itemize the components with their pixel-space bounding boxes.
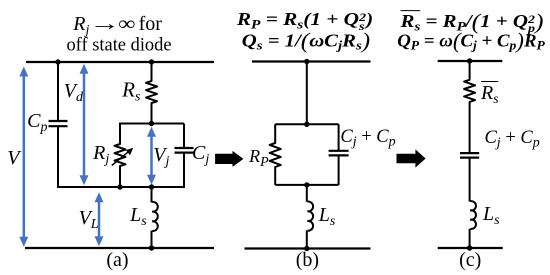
- wire: box top edge (b): [275, 123, 338, 125]
- node: top rail (b): [304, 59, 309, 64]
- node: top rail / C_p (a): [55, 59, 60, 64]
- wire: L_s lower lead (c): [469, 229, 471, 248]
- label L_s (a): [130, 205, 147, 225]
- equation: Q_s = 1/(ω C_j R_s): [242, 30, 370, 52]
- wire: top rail (a): [26, 61, 214, 63]
- wire: bottom rail (c): [438, 247, 503, 249]
- resistor R_P: [270, 124, 281, 185]
- voltage arrow V: [19, 67, 28, 247]
- node: top rail (c): [467, 58, 472, 63]
- wire: cap upper lead (b): [338, 124, 340, 150]
- wire: L_s lower lead (b): [306, 230, 308, 248]
- node: box top (b): [304, 122, 309, 127]
- inductor L_s (b): [308, 202, 314, 231]
- resistor overline R_s (c): [464, 61, 475, 153]
- text: "R_j → ∞ for": [73, 14, 162, 34]
- label C_j + C_p (c): [484, 129, 539, 148]
- wire: cap lower lead (b): [338, 156, 340, 185]
- capacitor C_j + C_p (b): [329, 151, 349, 156]
- inductor L_s (a): [152, 202, 158, 231]
- voltage arrow V_j: [147, 127, 156, 185]
- label L_s (b): [319, 205, 336, 225]
- resistor R_j: [115, 124, 126, 188]
- node: bottom bus / R_j (a): [117, 184, 122, 189]
- capacitor C_p: [49, 121, 68, 126]
- caption (b): [296, 250, 319, 270]
- capacitor C_j + C_p (c): [460, 153, 479, 158]
- resistor R_s: [146, 62, 157, 124]
- label V_L: [79, 208, 99, 228]
- equation: Q_P = ω(C_j + C_p)R_P: [397, 30, 545, 52]
- label C_j + C_p (b): [340, 127, 395, 146]
- capacitor C_j: [175, 148, 194, 153]
- node: bottom rail (b): [304, 246, 309, 251]
- label C_j: [192, 143, 209, 163]
- label V_j: [153, 145, 169, 165]
- wire: C_j upper lead: [183, 124, 185, 148]
- label overline R_s (c): [481, 81, 499, 103]
- voltage arrow V_d: [80, 64, 89, 186]
- label L_s (c): [483, 204, 500, 224]
- caption (a): [106, 250, 128, 270]
- equation: R_P = R_s(1 + Q_s^2): [237, 10, 373, 32]
- wire: C_p lower lead: [57, 126, 59, 187]
- label R_P: [249, 147, 269, 165]
- caption (c): [459, 250, 481, 270]
- node: bottom bus / L_s (a): [149, 184, 154, 189]
- wire: L_s upper lead (a): [151, 187, 153, 203]
- label V: [7, 148, 19, 168]
- node: box bottom (b): [304, 182, 309, 187]
- label V_d: [64, 81, 83, 101]
- node: bottom rail (c): [467, 245, 472, 250]
- block arrow (a)->(b): [215, 151, 243, 167]
- node: box top / R_s (a): [149, 121, 154, 126]
- label R_j: [93, 143, 109, 163]
- text: "off state diode": [66, 36, 171, 55]
- inductor L_s (c): [470, 201, 476, 229]
- label R_s: [122, 79, 140, 100]
- node: top rail / R_s (a): [149, 59, 154, 64]
- wire: box top edge (a): [119, 123, 184, 125]
- wire: bottom rail (a): [25, 247, 214, 249]
- wire: top rail (c): [438, 60, 503, 62]
- wire: L_s lower lead (a): [151, 231, 153, 248]
- variable-resistor arrow on R_j: [112, 148, 133, 166]
- label C_p: [27, 111, 47, 131]
- equation: overline R_s = R_P/(1 + Q_p^2): [400, 10, 543, 34]
- voltage arrow V_L: [95, 192, 104, 246]
- wire: cap lower lead (c): [469, 158, 471, 202]
- wire: top rail (b): [252, 60, 371, 62]
- wire: inner bottom bus (a): [57, 186, 184, 188]
- wire: C_j lower lead: [183, 153, 185, 188]
- wire: box bottom edge (b): [275, 184, 338, 186]
- wire: L_s upper lead (b): [306, 185, 308, 202]
- wire: top feed (b): [306, 62, 308, 125]
- wire: bottom rail (b): [245, 247, 371, 249]
- node: bottom rail / L_s (a): [149, 245, 154, 250]
- block arrow (b)->(c): [397, 149, 426, 167]
- wire: C_p upper lead: [57, 62, 59, 121]
